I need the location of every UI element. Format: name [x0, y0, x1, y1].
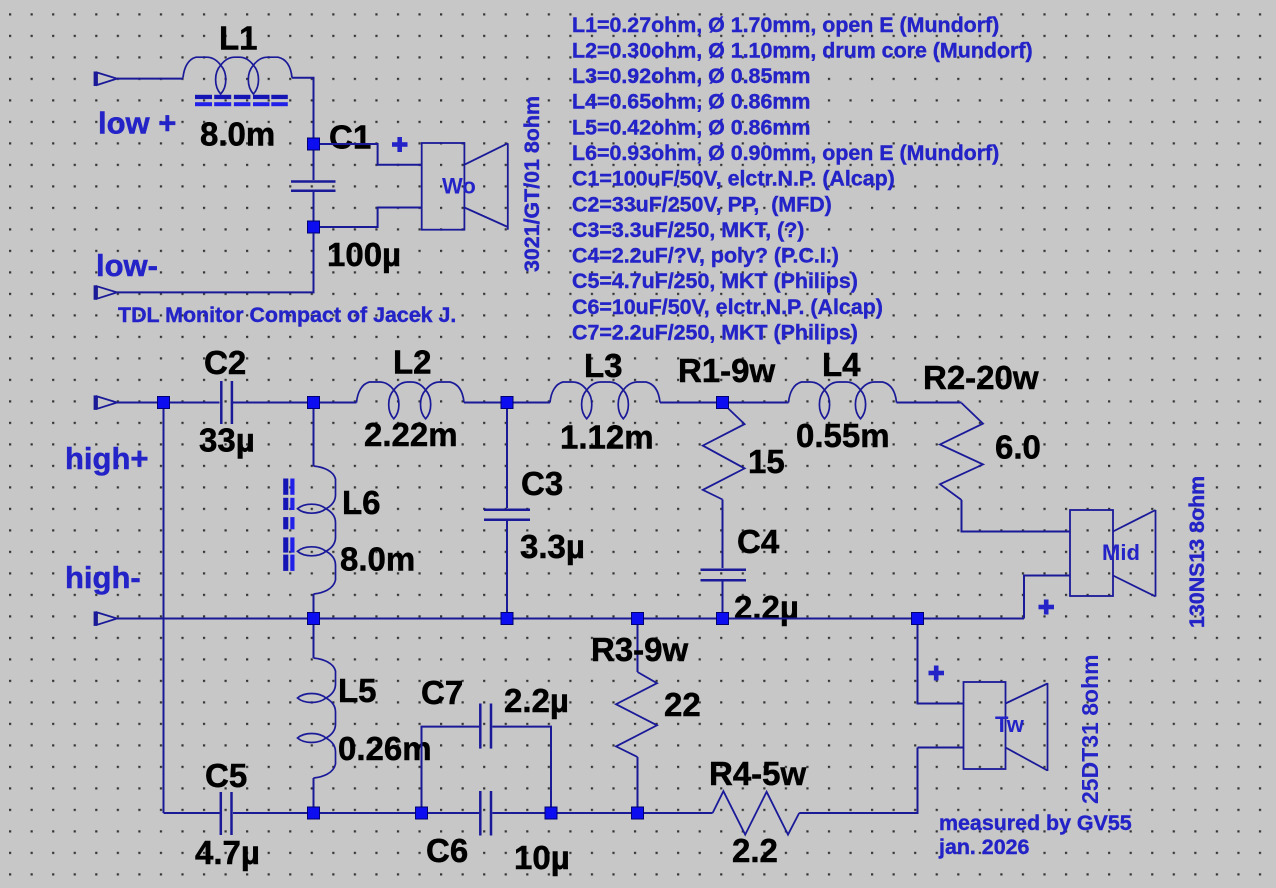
resistor R4 — [713, 791, 800, 834]
wire C2 to L2 — [233, 402, 357, 404]
junction high bus 4 — [717, 397, 729, 409]
junction high- bus C3 — [501, 613, 513, 625]
terminal high+ — [95, 395, 117, 410]
svg-text:C1: C1 — [329, 119, 371, 156]
junction bottom bus C7 right — [545, 807, 557, 819]
wire L3 to R1 node — [660, 402, 789, 404]
terminal low- — [95, 285, 117, 300]
capacitor C3 — [484, 510, 530, 520]
svg-text:C2=33uF/250V, PP, (MFD): C2=33uF/250V, PP, (MFD) — [572, 192, 832, 216]
wire C4 to bus — [722, 582, 724, 619]
terminal low+ — [95, 72, 117, 87]
svg-text:L5=0.42ohm, Ø 0.86mm: L5=0.42ohm, Ø 0.86mm — [572, 115, 810, 139]
svg-text:Mid: Mid — [1102, 540, 1140, 565]
speaker Tw — [964, 682, 1048, 771]
svg-text:R4-5w: R4-5w — [709, 755, 807, 792]
speaker Mid — [1070, 510, 1156, 597]
wire low- to node B — [117, 233, 314, 292]
svg-text:Tw: Tw — [995, 712, 1025, 737]
wire L5 to bottom bus — [313, 778, 315, 813]
junction high- bus L6 — [308, 613, 320, 625]
resistor R3 — [616, 672, 657, 757]
svg-text:C5: C5 — [205, 757, 247, 794]
svg-text:0.26m: 0.26m — [338, 730, 432, 767]
plus sign Wo — [392, 137, 408, 152]
wire high+ bus to C2 — [117, 402, 220, 404]
svg-text:3.3µ: 3.3µ — [520, 528, 585, 565]
inductor L5 vertical — [298, 658, 336, 778]
junction node A — [308, 138, 320, 150]
plus sign Mid — [1039, 600, 1055, 615]
svg-text:low +: low + — [98, 106, 176, 141]
junction bottom bus L5 — [308, 807, 320, 819]
svg-text:15: 15 — [748, 443, 785, 480]
svg-text:C7=2.2uF/250, MKT (Philips): C7=2.2uF/250, MKT (Philips) — [572, 320, 858, 344]
svg-text:C6=10uF/50V, elctr.N.P. (Alcap: C6=10uF/50V, elctr.N.P. (Alcap) — [572, 295, 883, 319]
capacitor C2 — [221, 381, 232, 424]
wire Tw minus — [918, 747, 964, 749]
wire C3 bottom — [506, 521, 508, 619]
terminal high- — [95, 611, 117, 626]
svg-text:C3: C3 — [521, 465, 563, 502]
L1 core bar top row — [195, 95, 288, 99]
svg-text:L3: L3 — [584, 347, 623, 384]
svg-text:1.12m: 1.12m — [560, 419, 654, 456]
svg-text:2.2µ: 2.2µ — [504, 682, 569, 719]
L1 core bar bottom row — [195, 102, 288, 106]
wire C7 branch left — [422, 727, 480, 813]
wire L6 to high- bus — [313, 594, 315, 619]
wire R2 to Mid — [962, 500, 1071, 532]
wire low+ lead — [117, 78, 183, 80]
svg-text:R2-20w: R2-20w — [923, 359, 1039, 396]
wire R4 to Tw riser — [799, 748, 917, 814]
L6 core bar right column — [290, 479, 294, 571]
wire Mid minus to bus — [1024, 576, 1070, 619]
svg-text:130NS13 8ohm: 130NS13 8ohm — [1185, 476, 1209, 628]
wire Tw plus riser — [918, 619, 964, 704]
wire C7 branch right — [492, 727, 551, 813]
wire C6 to R3 node — [492, 812, 712, 814]
wire C1 to node B — [313, 192, 315, 227]
svg-text:100µ: 100µ — [327, 236, 401, 273]
svg-text:C4=2.2uF/?V, poly? (P.C.I.): C4=2.2uF/?V, poly? (P.C.I.) — [572, 244, 839, 268]
inductor L4 — [789, 382, 897, 419]
svg-text:jan. 2026: jan. 2026 — [938, 835, 1029, 859]
svg-text:C2: C2 — [204, 344, 246, 381]
svg-text:L6=0.93ohm, Ø 0.90mm, open E (: L6=0.93ohm, Ø 0.90mm, open E (Mundorf) — [572, 141, 999, 165]
svg-text:25DT31 8ohm: 25DT31 8ohm — [1077, 654, 1103, 804]
resistor R2 — [940, 403, 983, 500]
svg-text:C3=3.3uF/250, MKT, (?): C3=3.3uF/250, MKT, (?) — [572, 218, 804, 242]
inductor L2 — [357, 382, 465, 419]
svg-text:0.55m: 0.55m — [796, 417, 890, 454]
inductor L6 vertical — [298, 466, 336, 594]
svg-text:R3-9w: R3-9w — [591, 631, 689, 668]
svg-text:high+: high+ — [65, 441, 149, 476]
svg-text:2.2: 2.2 — [732, 832, 778, 869]
svg-text:10µ: 10µ — [514, 839, 570, 876]
svg-text:R1-9w: R1-9w — [678, 352, 776, 389]
junction high bus 1 — [158, 397, 170, 409]
plus sign Tw — [929, 666, 945, 681]
svg-text:C5=4.7uF/250, MKT (Philips): C5=4.7uF/250, MKT (Philips) — [572, 269, 858, 293]
svg-text:L4=0.65ohm, Ø 0.86mm: L4=0.65ohm, Ø 0.86mm — [572, 90, 810, 114]
L6 core bar left column — [283, 479, 288, 571]
svg-text:6.0: 6.0 — [995, 429, 1041, 466]
wire Wo minus to node B — [314, 208, 422, 228]
svg-text:22: 22 — [664, 686, 701, 723]
svg-text:C1=100uF/50V, elctr.N.P. (Alca: C1=100uF/50V, elctr.N.P. (Alcap) — [572, 167, 895, 191]
junction high- bus Tw — [912, 613, 924, 625]
svg-text:L1: L1 — [219, 20, 258, 57]
svg-text:L5: L5 — [338, 672, 377, 709]
wire node to L6 — [313, 403, 315, 467]
wire high- bus to R3 — [637, 619, 639, 673]
svg-text:TDL Monitor Compact of Jacek J: TDL Monitor Compact of Jacek J. — [118, 303, 456, 327]
wire high- bus to L5 — [313, 619, 315, 659]
wire C5 to L5 node — [233, 812, 479, 814]
svg-text:2.22m: 2.22m — [364, 416, 458, 453]
speaker Wo — [422, 143, 508, 230]
wire left rail — [163, 403, 165, 814]
svg-text:high-: high- — [65, 560, 141, 595]
svg-text:3021/GT/01 8ohm: 3021/GT/01 8ohm — [520, 96, 544, 272]
svg-text:L4: L4 — [822, 346, 861, 383]
wire L4 to R2 — [897, 402, 962, 404]
capacitor C7 — [480, 704, 491, 749]
svg-text:4.7µ: 4.7µ — [195, 834, 260, 871]
capacitor C5 — [221, 792, 232, 835]
wire node A to Wo plus — [314, 144, 422, 165]
svg-text:33µ: 33µ — [199, 422, 255, 459]
junction high- bus R3 — [632, 613, 644, 625]
svg-text:L6: L6 — [342, 484, 381, 521]
svg-text:8.0m: 8.0m — [340, 541, 415, 578]
svg-text:measured by GV55: measured by GV55 — [939, 811, 1132, 835]
wire node A to C1 — [313, 144, 315, 180]
wire bottom bus left — [164, 812, 220, 814]
svg-text:C7: C7 — [421, 674, 463, 711]
svg-text:low-: low- — [96, 248, 158, 283]
wire R1 to C4 — [722, 500, 724, 569]
capacitor C1 — [291, 182, 336, 191]
inductor L1 — [183, 57, 292, 94]
junction bottom bus R3 — [632, 807, 644, 819]
wire high- bus — [117, 618, 1024, 620]
svg-text:C6: C6 — [426, 832, 468, 869]
junction node B — [308, 221, 320, 233]
svg-text:2.2µ: 2.2µ — [734, 589, 799, 626]
junction high bus 2 — [308, 397, 320, 409]
capacitor C4 — [701, 570, 747, 581]
svg-text:L2=0.30ohm, Ø 1.10mm, drum cor: L2=0.30ohm, Ø 1.10mm, drum core (Mundorf… — [572, 39, 1033, 63]
svg-text:L1=0.27ohm, Ø 1.70mm, open E (: L1=0.27ohm, Ø 1.70mm, open E (Mundorf) — [572, 13, 999, 37]
inductor L3 — [550, 382, 660, 419]
wire C3 top — [506, 403, 508, 509]
resistor R1 — [703, 403, 745, 500]
svg-text:C4: C4 — [737, 523, 780, 560]
wire L1 to node A — [292, 78, 314, 140]
wire R3 to bottom bus — [637, 757, 639, 813]
svg-text:8.0m: 8.0m — [200, 116, 275, 153]
wire L2 to L3 — [464, 402, 550, 404]
junction bottom bus C7 left — [416, 807, 428, 819]
parts list — [572, 13, 1033, 345]
svg-text:L3=0.92ohm, Ø 0.85mm: L3=0.92ohm, Ø 0.85mm — [572, 64, 810, 88]
svg-text:L2: L2 — [393, 344, 432, 381]
capacitor C6 — [480, 791, 491, 836]
junction high- bus C4 — [717, 613, 729, 625]
svg-text:Wo: Wo — [442, 174, 476, 199]
junction high bus 3 — [501, 397, 513, 409]
